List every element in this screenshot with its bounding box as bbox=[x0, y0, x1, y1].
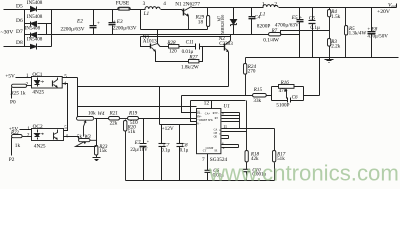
capacitor E5 bbox=[297, 8, 304, 58]
wire base feed drop bbox=[141, 37, 151, 47]
ground R23 bbox=[93, 158, 101, 161]
IC U1 SG3524 box bbox=[197, 109, 221, 154]
svg-text:5100P: 5100P bbox=[276, 102, 289, 108]
svg-text:P2: P2 bbox=[9, 157, 15, 163]
svg-text:2200μ/63V: 2200μ/63V bbox=[61, 27, 85, 33]
wire P0 bbox=[11, 87, 13, 98]
wire opto collector line y86.6 bbox=[78, 86, 229, 88]
resistor R22 bbox=[12, 135, 32, 138]
wire control line y95 bbox=[182, 95, 253, 97]
OC1 LED bbox=[35, 78, 44, 87]
resistor R7 bbox=[269, 33, 281, 36]
IC internal pin numbers bbox=[197, 110, 222, 135]
resistor R27 bbox=[189, 60, 199, 63]
wire drop x190.5 bbox=[191, 101, 197, 122]
svg-text:RTV−: RTV− bbox=[213, 112, 220, 115]
svg-text:R19: R19 bbox=[128, 111, 138, 117]
capacitor E2 bbox=[90, 10, 97, 35]
optocoupler OC2 box bbox=[32, 129, 64, 141]
inductor L1b (pins 1-2) bbox=[263, 5, 278, 7]
wire W4 right down to R23 bbox=[96, 119, 98, 146]
svg-text:5k: 5k bbox=[77, 135, 82, 140]
svg-text:9: 9 bbox=[223, 146, 225, 150]
svg-text:SE: SE bbox=[214, 150, 217, 153]
svg-text:L1: L1 bbox=[143, 11, 150, 17]
diode D7 bbox=[31, 33, 37, 38]
svg-text:18: 18 bbox=[198, 19, 204, 25]
pot R16 network right node bbox=[303, 87, 305, 101]
svg-text:0.1μ: 0.1μ bbox=[161, 148, 170, 153]
resistor R4 bbox=[328, 8, 331, 31]
svg-text:+20V: +20V bbox=[377, 9, 391, 15]
svg-text:33k: 33k bbox=[253, 98, 261, 104]
resistor R21 bbox=[109, 117, 128, 121]
svg-text:CT: CT bbox=[203, 150, 207, 153]
transistor N1 2N6277 bbox=[184, 7, 192, 30]
wire bottom rail bbox=[126, 180, 275, 182]
svg-text:3: 3 bbox=[143, 1, 146, 7]
wire top input bbox=[4, 9, 31, 11]
resistor R3 bbox=[328, 31, 331, 58]
wire D8 row right bbox=[38, 46, 52, 48]
svg-text:4: 4 bbox=[64, 82, 67, 87]
IC right stubs bbox=[222, 101, 275, 151]
svg-text:D6: D6 bbox=[16, 18, 23, 24]
wire OC2 pin4 to W3 bbox=[64, 136, 79, 138]
wire +5V to OC1 pin1 bbox=[16, 77, 32, 79]
wire emitter node to R29 bbox=[141, 29, 208, 31]
svg-text:IN+: IN+ bbox=[197, 115, 202, 118]
svg-text:8200P: 8200P bbox=[257, 24, 271, 30]
svg-text:E7: E7 bbox=[134, 140, 141, 146]
resistor R17 bbox=[273, 129, 276, 181]
svg-text:P0: P0 bbox=[10, 100, 16, 106]
svg-text:12: 12 bbox=[204, 101, 210, 107]
wire pin12 top line bbox=[191, 100, 246, 102]
wire A1013 collector down bbox=[156, 52, 189, 62]
svg-text:270: 270 bbox=[248, 68, 256, 74]
wire +12V line bbox=[160, 124, 197, 126]
capacitor C7 bbox=[159, 125, 166, 181]
capacitor C6 bbox=[205, 154, 212, 181]
svg-text:4N25: 4N25 bbox=[34, 143, 46, 149]
svg-text:CB: CB bbox=[214, 132, 218, 135]
svg-text:1: 1 bbox=[26, 74, 29, 79]
svg-text:C5: C5 bbox=[309, 16, 316, 22]
wire P2 bbox=[11, 138, 13, 156]
wire top rail after L1b bbox=[279, 4, 397, 8]
svg-text:+E3: +E3 bbox=[113, 19, 123, 25]
diode D8 bbox=[31, 44, 37, 50]
svg-text:R15: R15 bbox=[253, 87, 263, 93]
svg-text:4N25: 4N25 bbox=[32, 90, 44, 96]
diode D6 bbox=[31, 22, 37, 27]
svg-text:C11: C11 bbox=[186, 39, 194, 45]
OC2 LED bbox=[35, 130, 44, 140]
capacitor C5 bbox=[309, 8, 316, 58]
svg-text:W3: W3 bbox=[84, 135, 91, 140]
capacitor C6b bbox=[288, 98, 291, 103]
svg-text:7: 7 bbox=[202, 157, 205, 163]
wire sense drop x319.7 bbox=[319, 58, 321, 96]
resistor R25 bbox=[12, 84, 32, 87]
wire D6 row bbox=[25, 23, 52, 25]
svg-text:C6: C6 bbox=[292, 94, 298, 100]
svg-text:10k: 10k bbox=[88, 111, 96, 117]
resistor R5 bbox=[345, 8, 348, 58]
svg-text:0.1μ: 0.1μ bbox=[180, 148, 189, 153]
optocoupler OC1 box bbox=[32, 77, 63, 89]
svg-text:2.2k: 2.2k bbox=[331, 44, 340, 50]
capacitor E3 bbox=[109, 10, 116, 35]
wire mid bus after R7 bbox=[281, 34, 300, 36]
wire +5V to OC2 pin1 bbox=[20, 129, 32, 131]
wire W4 right to R21 bbox=[95, 118, 109, 120]
svg-text:4700μ/63V: 4700μ/63V bbox=[275, 22, 299, 28]
wire R28 to C11 bbox=[179, 46, 196, 48]
svg-text:R16: R16 bbox=[280, 80, 290, 86]
wire drop x181.5 bbox=[182, 96, 197, 113]
svg-text:470μ/50V: 470μ/50V bbox=[367, 34, 388, 40]
svg-text:COMP: COMP bbox=[206, 147, 214, 150]
wire mid bus bbox=[52, 34, 269, 36]
pot W4 bbox=[77, 117, 94, 137]
svg-text:8: 8 bbox=[222, 112, 224, 116]
wire C6b row bbox=[272, 100, 304, 102]
resistor R19 bbox=[128, 117, 197, 121]
svg-text:IN5408: IN5408 bbox=[27, 0, 43, 6]
svg-text:V−: V− bbox=[197, 123, 201, 126]
svg-text:OE: OE bbox=[214, 135, 218, 138]
wire bus fuse to L1 bbox=[131, 9, 146, 11]
OC1 phototransistor bbox=[53, 78, 58, 88]
svg-text:11: 11 bbox=[223, 124, 227, 129]
pot W3 bbox=[76, 136, 97, 146]
capacitor C10 bbox=[243, 169, 250, 180]
resistor R15 bbox=[253, 94, 267, 98]
inductor L1 (pins 3-4) bbox=[145, 7, 160, 9]
wire R27 right up bbox=[199, 47, 203, 62]
svg-text:0.1μ: 0.1μ bbox=[310, 25, 320, 31]
svg-text:1.3k/4W: 1.3k/4W bbox=[349, 30, 367, 36]
svg-text:U1: U1 bbox=[223, 104, 230, 110]
wire pin12 stub bbox=[211, 101, 213, 109]
svg-text:15k: 15k bbox=[99, 148, 107, 154]
svg-text:R21: R21 bbox=[109, 111, 118, 117]
resistor R20 bbox=[124, 120, 127, 181]
wire top bus after D5 bbox=[38, 9, 118, 11]
capacitor C11 bbox=[196, 44, 200, 50]
svg-text:www.cntronics.com: www.cntronics.com bbox=[208, 161, 399, 186]
svg-text:+5V: +5V bbox=[5, 73, 15, 79]
wire A1013 emitter up bbox=[157, 30, 159, 44]
svg-text:D5: D5 bbox=[16, 4, 23, 10]
svg-text:4: 4 bbox=[163, 1, 166, 7]
resistor R28 bbox=[169, 45, 179, 49]
svg-text:L1: L1 bbox=[259, 11, 266, 17]
svg-text:RT: RT bbox=[215, 117, 219, 120]
svg-text:22μ/16V: 22μ/16V bbox=[130, 148, 148, 153]
resistor R18 bbox=[245, 151, 248, 170]
IC internal pin text right bbox=[203, 112, 220, 153]
capacitor C8 bbox=[177, 125, 184, 181]
wire opto chain vertical bbox=[77, 78, 79, 117]
svg-text:+: + bbox=[97, 20, 100, 26]
svg-text:A1013: A1013 bbox=[143, 39, 157, 45]
svg-text:+OSREF SFK: +OSREF SFK bbox=[197, 119, 213, 122]
capacitor E8 bbox=[368, 8, 376, 58]
fuse F2 bbox=[118, 7, 131, 10]
wire unreg drop bbox=[140, 10, 142, 30]
wire N2 collector up bbox=[230, 35, 232, 41]
svg-text:+12V: +12V bbox=[162, 126, 174, 132]
svg-text:1: 1 bbox=[262, 1, 265, 7]
svg-text:D7: D7 bbox=[16, 29, 23, 35]
svg-text:2200μ/63V: 2200μ/63V bbox=[113, 25, 137, 31]
svg-text:D8: D8 bbox=[16, 40, 23, 46]
svg-text:2: 2 bbox=[274, 1, 277, 7]
wire C11 to N2 base bbox=[200, 46, 225, 48]
svg-text:Vout: Vout bbox=[388, 3, 397, 9]
svg-text:IN5408: IN5408 bbox=[27, 37, 43, 43]
wire emitter to R28 bbox=[158, 44, 169, 47]
capacitor E7 bbox=[140, 119, 147, 181]
transistor N3 A1013 bbox=[151, 44, 158, 52]
svg-text:CA+: CA+ bbox=[205, 113, 211, 116]
svg-text:MBR20100: MBR20100 bbox=[220, 15, 225, 34]
svg-text:47k: 47k bbox=[279, 88, 287, 94]
wire D7 row bbox=[25, 34, 52, 36]
pot R16 bbox=[272, 85, 304, 99]
resistor R29 bbox=[207, 8, 210, 30]
svg-text:FUSE: FUSE bbox=[116, 1, 130, 7]
svg-text:1.8k/2W: 1.8k/2W bbox=[181, 64, 199, 70]
svg-text:6: 6 bbox=[222, 141, 224, 145]
svg-text:IN−: IN− bbox=[197, 112, 202, 115]
wire control line y95 right bbox=[267, 95, 320, 97]
wire OC1 pin5 bbox=[63, 77, 78, 79]
wire L1 to N1 base bbox=[161, 10, 184, 12]
resistor R23 bbox=[95, 146, 98, 158]
svg-text:OC1: OC1 bbox=[32, 72, 42, 78]
pot R16 network left node bbox=[271, 87, 273, 101]
svg-text:R7: R7 bbox=[271, 29, 278, 34]
diode D5 bbox=[31, 7, 37, 12]
wire N2 emitter down bbox=[228, 52, 230, 87]
svg-text:51k: 51k bbox=[128, 129, 136, 135]
IC internal pin text left bbox=[197, 112, 213, 126]
svg-text:E2: E2 bbox=[76, 18, 83, 24]
wire line y106 bbox=[78, 106, 197, 108]
wire OC1 pin4 bbox=[63, 84, 68, 131]
svg-text:C2383: C2383 bbox=[219, 41, 233, 47]
wire bridge mid vertical bbox=[46, 24, 48, 35]
OC2 phototransistor bbox=[54, 130, 58, 140]
svg-text:120: 120 bbox=[169, 48, 177, 54]
wire top rail after N1 bbox=[192, 7, 264, 9]
wire bottom-right bus bbox=[246, 57, 399, 59]
ground output bbox=[325, 58, 334, 63]
svg-text:R22: R22 bbox=[10, 131, 19, 136]
svg-text:N1 2N6277: N1 2N6277 bbox=[175, 1, 200, 7]
svg-text:IN5408: IN5408 bbox=[25, 25, 41, 31]
svg-text:R28: R28 bbox=[166, 40, 176, 46]
wire y86.5 drop to +12V line bbox=[159, 87, 161, 125]
svg-text:1.5k: 1.5k bbox=[331, 14, 340, 20]
svg-text:W4: W4 bbox=[98, 111, 105, 117]
diode M7 MBR20100 bbox=[231, 8, 237, 35]
svg-text:1k: 1k bbox=[15, 143, 21, 149]
wire lower input bbox=[4, 46, 31, 48]
svg-text:22k: 22k bbox=[110, 121, 118, 127]
svg-text:+E8: +E8 bbox=[367, 27, 377, 33]
svg-text:OC2: OC2 bbox=[33, 124, 43, 130]
svg-text:~30V: ~30V bbox=[1, 29, 15, 35]
wire feedback divider tap bbox=[281, 31, 330, 35]
svg-text:+: + bbox=[147, 139, 150, 144]
wire bridge right vertical bbox=[51, 10, 53, 47]
resistor R24 bbox=[244, 58, 247, 96]
svg-text:E5+: E5+ bbox=[291, 15, 302, 21]
capacitor C4 bbox=[249, 8, 256, 35]
svg-text:0.1/4W: 0.1/4W bbox=[263, 38, 279, 44]
transistor N2 C2383 bbox=[225, 41, 231, 53]
wire bridge left vertical bbox=[24, 10, 26, 47]
svg-text:IN5408: IN5408 bbox=[27, 14, 43, 20]
wire line y36.6 bbox=[141, 36, 231, 38]
